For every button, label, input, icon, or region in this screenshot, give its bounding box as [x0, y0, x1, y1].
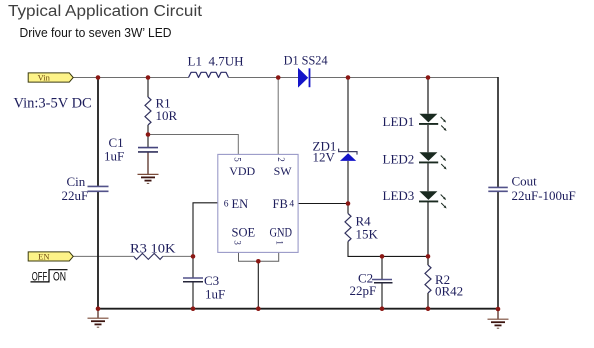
node C2 bottom — [380, 306, 385, 311]
node SOE/GND — [256, 259, 261, 264]
svg-text:22pF: 22pF — [350, 283, 377, 298]
ground below C1 — [138, 174, 159, 183]
svg-text:4: 4 — [289, 200, 294, 210]
svg-text:6: 6 — [224, 200, 229, 210]
svg-text:LED3: LED3 — [383, 188, 415, 203]
wire Cin column — [97, 78, 99, 309]
wire Cout column — [497, 77, 499, 309]
node R1 top — [146, 75, 151, 80]
capacitor C3 — [183, 273, 225, 302]
node FB — [346, 201, 351, 206]
wire R1 column — [147, 78, 149, 148]
LED3 — [383, 188, 447, 209]
wire SOE GND stubs join — [238, 252, 279, 261]
svg-text:LED2: LED2 — [383, 151, 415, 166]
capacitor C2 — [350, 271, 393, 298]
svg-text:VDD: VDD — [229, 164, 255, 178]
svg-text:Cout: Cout — [512, 173, 538, 188]
wire EN flag to R3 — [73, 255, 134, 257]
svg-text:2: 2 — [276, 157, 286, 162]
svg-text:L1 4.7UH: L1 4.7UH — [188, 54, 244, 69]
wire C3 column — [192, 256, 194, 308]
ground bottom-right — [488, 309, 509, 328]
zener ZD1 — [313, 139, 358, 165]
resistor R1 — [145, 97, 151, 125]
wire inductor to D1 — [229, 77, 299, 79]
resistor R2 — [425, 265, 431, 293]
svg-text:R3 10K: R3 10K — [130, 240, 176, 255]
flag EN — [28, 251, 73, 261]
svg-text:LED1: LED1 — [383, 114, 415, 129]
wire bottom ground rail — [97, 308, 498, 310]
svg-text:5: 5 — [232, 157, 242, 162]
capacitor C1 — [104, 135, 158, 164]
svg-text:0R42: 0R42 — [435, 284, 463, 299]
wire VDD net from R1/C1 node — [148, 135, 238, 155]
svg-text:Vin:3-5V DC: Vin:3-5V DC — [14, 96, 92, 112]
wire ZD1/FB column — [347, 78, 349, 204]
svg-text:ON: ON — [53, 269, 66, 283]
svg-text:10R: 10R — [156, 108, 178, 123]
diode D1 — [284, 53, 328, 88]
resistor R4 — [345, 214, 351, 242]
node GND rail mid — [256, 306, 261, 311]
svg-text:D1 SS24: D1 SS24 — [284, 53, 328, 68]
flag Vin — [28, 72, 73, 82]
wire Vin flag to inductor — [73, 77, 189, 79]
svg-text:1uF: 1uF — [205, 287, 225, 302]
svg-text:C3: C3 — [204, 273, 219, 288]
inductor L1 — [189, 72, 229, 77]
svg-text:Typical Application Circuit: Typical Application Circuit — [8, 3, 203, 20]
node gnd rail left — [96, 306, 101, 311]
wire C2 column — [381, 256, 383, 308]
node SW/L1 — [276, 75, 281, 80]
node Vin/Cin — [96, 75, 101, 80]
svg-text:EN: EN — [232, 197, 249, 211]
svg-text:FB: FB — [273, 197, 288, 211]
node EN/R3/C3 — [191, 254, 196, 259]
wire FB pin — [298, 203, 348, 205]
svg-text:3: 3 — [232, 240, 242, 245]
node VOUT/ZD1 — [346, 75, 351, 80]
svg-text:1: 1 — [275, 240, 285, 245]
wire R2 leads — [427, 256, 429, 308]
wire EN pin to C3 node — [193, 203, 218, 257]
resistor R3 — [134, 253, 163, 259]
wire SOE/GND node to bottom rail — [257, 261, 259, 308]
svg-text:SOE: SOE — [232, 226, 256, 240]
svg-text:GND: GND — [270, 226, 293, 240]
capacitor Cout — [488, 173, 575, 203]
wire R3 to C3 node — [163, 255, 193, 257]
wire LED column — [427, 78, 429, 257]
wire C1 to ground — [147, 152, 149, 174]
svg-text:22uF-100uF: 22uF-100uF — [512, 188, 576, 203]
svg-text:Cin: Cin — [67, 174, 86, 189]
node C3 bottom — [191, 306, 196, 311]
wire R4 leads and row to LED column — [348, 204, 428, 257]
LED2 — [383, 151, 447, 169]
node Cout bottom — [496, 307, 501, 312]
svg-text:SW: SW — [274, 164, 293, 178]
LED1 — [383, 114, 447, 131]
switch annotation OFF/ON — [31, 269, 68, 283]
node R1/C1/VDD — [146, 132, 151, 137]
svg-text:Vin: Vin — [38, 72, 51, 82]
svg-text:EN: EN — [38, 251, 49, 261]
wire D1 to top-right corner — [310, 77, 498, 79]
node LED/R2 — [426, 254, 431, 259]
node R2 bottom — [426, 306, 431, 311]
svg-text:22uF: 22uF — [62, 188, 89, 203]
node R4/C2 — [380, 254, 385, 259]
ground bottom-left — [88, 309, 109, 328]
svg-text:12V: 12V — [313, 149, 336, 164]
wire SW pin to top rail — [277, 78, 279, 155]
svg-text:15K: 15K — [356, 226, 379, 241]
svg-text:Drive four to seven 3W’ LED: Drive four to seven 3W’ LED — [20, 26, 172, 40]
IC U1 box — [218, 154, 298, 252]
svg-text:1uF: 1uF — [104, 149, 124, 164]
node LED top — [426, 75, 431, 80]
capacitor Cin — [62, 174, 109, 203]
